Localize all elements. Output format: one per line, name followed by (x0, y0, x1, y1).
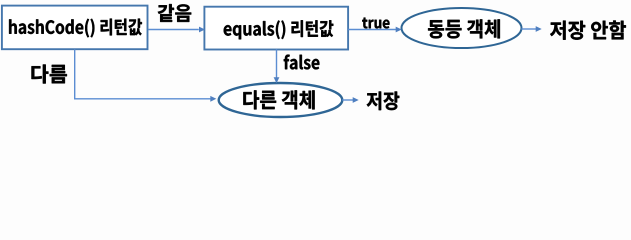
wire: box2 down to ellipse2 arrow (276, 49, 278, 78)
text 동등 객체 (428, 19, 500, 38)
process box: equals() 리턴값 (204, 7, 348, 50)
text equals() 리턴값 (224, 20, 334, 39)
text hashCode() 리턴값 (9, 19, 142, 38)
wire: box2 to ellipse1 arrow (348, 29, 396, 31)
wire: ellipse2 to 저장 arrow (342, 99, 353, 101)
label true (362, 18, 389, 29)
wire: box1 to box2 arrow (148, 29, 198, 31)
text 저장 안함 (550, 21, 626, 40)
text 다른 객체 (243, 90, 314, 109)
label false (284, 55, 320, 70)
process box: hashCode() 리턴값 (2, 6, 148, 50)
label 같음 (158, 4, 191, 22)
text 저장 (367, 92, 400, 111)
wire: ellipse1 to 저장 안함 arrow (521, 28, 536, 30)
wire: box1 elbow down-right to ellipse2 arrow (75, 49, 211, 98)
ellipse: 동등 객체 (402, 8, 522, 48)
ellipse: 다른 객체 (219, 83, 343, 117)
label 다름 (32, 65, 67, 84)
